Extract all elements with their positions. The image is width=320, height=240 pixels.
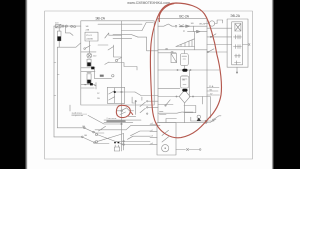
inner column of right box [232,22,243,65]
wires between left and middle boxes [113,35,138,37]
step wire from K2 [109,63,137,71]
terminal block small rect [85,32,98,41]
bottom middle instrument box [157,123,176,156]
exit wire right [243,44,248,46]
fuse F2 black bottom [58,36,61,40]
wire: step cluster right of rect [98,44,108,46]
motor circle [162,145,169,152]
arrows inside [162,130,169,135]
svg-text:ЭВ-2Б: ЭВ-2Б [199,23,206,25]
fuse F3 black bottom [87,62,91,66]
red annotation: circle tail [130,112,133,115]
box ВС-2А (middle device) [158,18,207,122]
svg-text:ВС-2А: ВС-2А [179,15,189,19]
bus stubs left [54,62,56,64]
contact on wire 2 [211,34,216,37]
wire: row y129.8 [95,129,126,131]
wire: rows around F3 [81,67,95,69]
left pillarbox bar [0,0,25,169]
svg-text:ЭВ-2А: ЭВ-2А [230,14,241,18]
wire: top feed horizontal [54,25,81,27]
wire row y88 [81,87,95,89]
wire: below F2 [58,41,60,47]
svg-text:www.CXEMOTEXHIKA.com: www.CXEMOTEXHIKA.com [126,1,170,5]
diamond rectifier [179,90,190,103]
terminal circles on top feed [62,25,64,27]
fuse F4 black bottom [87,80,91,84]
wire: vertical stub to label [69,105,71,111]
contact on wire 4 [208,49,214,52]
svg-text:напряжение: напряжение [72,115,85,117]
contact pair inside [109,91,115,94]
red annotation: small circle [116,105,130,117]
wire row y88.3 [158,87,180,89]
wire: arrow stub x96 [95,83,97,90]
svg-text:2 осн.конт.: 2 осн.конт. [107,118,118,120]
right box interior elements [235,24,241,32]
pin row 4 [235,55,241,57]
double line bus [104,119,141,121]
filled triangle relay [197,118,201,121]
switch in middle box low [166,100,171,106]
wire: row y92 to right [115,91,135,93]
diag contact right [214,116,222,120]
paper background [0,0,300,169]
fuse F3 body [87,59,91,66]
wire: lower-left row 2 with contact [54,137,109,144]
wire: right steps from X area [126,125,160,130]
contact K-low [99,126,106,131]
wires entering from left [150,124,157,126]
lamp X symbol [87,53,92,58]
wire: small step at 65 [65,26,73,35]
wire: drop to fuse F2 [58,26,60,31]
page border frame [45,11,253,159]
junction dot in contact box [114,91,116,93]
wire: below F4 [81,83,95,85]
svg-text:15 А: 15 А [209,85,214,88]
black oval above cartridge R2 [182,69,187,72]
pin row 3 [234,46,242,48]
contacts bracket below left box [135,100,137,114]
wire: main vertical bus x121.5 [121,21,123,151]
row 1 contacts [158,24,175,26]
contact box [107,87,124,103]
svg-text:ЭВ-2А: ЭВ-2А [95,17,106,21]
wire row y70 [158,69,219,71]
black oval below cartridge R2 [182,89,187,92]
fuse F1 (top feed) [56,24,62,27]
circled contact [117,108,134,111]
switch S1 [105,33,122,38]
terminal ticks row [85,84,86,86]
wire y116.3 [128,115,136,117]
contact to middle box [135,92,158,96]
wire: crossing X pair [97,135,124,145]
top cartridge wire [158,49,207,51]
lower right contact [205,119,216,123]
black mark terminal row [90,83,93,85]
wire: row y47 with contact into left box [57,43,81,47]
switch upper in box [84,48,86,50]
wire: label diagonal to bus [88,115,122,124]
wire exit right of motor [176,149,186,151]
vertical right drop [210,97,212,119]
wire: lower-left row 1 with contact [57,128,104,133]
three label stubs [207,87,219,89]
wire: stubs above relay [114,145,116,147]
wire: row into middle area [98,23,142,25]
wire: inner rect to lamp [88,41,90,53]
vertical beside cartridges [188,70,190,97]
pin row 2 [234,36,242,38]
stub below right box [236,67,238,72]
svg-text:24/48В: 24/48В [86,39,93,41]
small element [100,75,104,77]
instrument circle [209,21,214,26]
pin row 5 [235,62,241,64]
right pillarbox bar [274,0,300,169]
wire: left bus vertical B [56,47,58,128]
feeder verticals to bracket [132,97,136,103]
contact K2 [105,62,109,64]
red annotation: big ellipse [150,3,221,138]
small box above triangle [184,106,196,113]
cartridge R2 [182,75,187,77]
triangle element (hatched) [176,39,195,47]
parallelogram element [171,54,177,63]
wire row y52.8 [158,52,176,54]
box ЭВ-2А (left device) [81,21,154,105]
svg-text:РУ-21: РУ-21 [86,35,93,37]
low contacts [158,112,193,113]
schematic line work [45,11,253,159]
wire y104.5 [158,104,173,106]
diagonal riser to middle box [142,23,153,31]
red annotation: pen overlap stroke at top-left [159,4,174,22]
relay box bottom-left [114,147,119,151]
terminal circle [112,75,114,77]
wire: vertical x123.6 [123,134,125,151]
wire row y51.9 [81,51,96,53]
cartridge R1 [183,50,185,54]
wire y121 with triangle relay [191,120,214,122]
wires middle box to right box [207,27,232,29]
wire: row y78.3 [94,77,111,79]
wire: long rows to instrument stubs [116,141,150,143]
wires around diamond [158,96,179,98]
row 2 with arrow [192,26,194,31]
small text labels [95,14,241,21]
dark component blobs [58,36,202,143]
fuse F2 body [57,31,61,41]
wire: left bus vertical A [53,26,55,137]
top contact above box [166,119,176,123]
fuse F4 body [87,72,91,74]
wire: vertical x94.3 [93,67,95,78]
relay box marks [114,142,116,143]
wire: row y30.5 [122,30,143,32]
black mark right of F3 [91,67,94,70]
box ЭВ-2А (right device) [227,19,248,67]
svg-text:24В: 24В [86,30,90,32]
